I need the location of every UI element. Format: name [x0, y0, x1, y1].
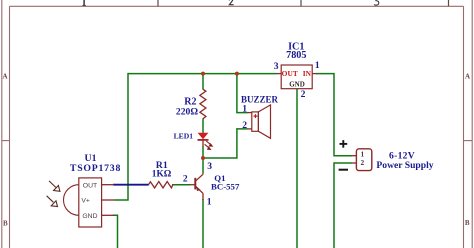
wire connector pin 2 to bottom	[334, 163, 352, 248]
svg-text:220Ω: 220Ω	[176, 107, 198, 118]
svg-text:TSOP1738: TSOP1738	[70, 163, 121, 174]
LED LED1	[198, 133, 214, 150]
wire R1 to Q1 base	[172, 184, 190, 186]
svg-text:B: B	[3, 220, 8, 228]
wire R2 to LED1	[202, 119, 204, 133]
svg-text:A: A	[2, 73, 7, 81]
junction node rail-R2	[201, 72, 205, 76]
IC1 pin 3 number	[274, 61, 279, 72]
svg-text:BC-557: BC-557	[211, 181, 240, 191]
wire node to buzzer pin 2	[203, 129, 248, 158]
IR light arrows	[47, 181, 60, 207]
svg-text:OUT: OUT	[83, 182, 97, 189]
resistor R2	[200, 89, 206, 118]
label R1 value	[152, 160, 172, 180]
op-amp IC1 7805 regulator	[277, 65, 317, 89]
power supply connector X1	[352, 149, 372, 171]
svg-text:A: A	[465, 73, 470, 81]
transistor Q1 BC-557	[190, 173, 203, 200]
resistor R1	[149, 182, 173, 188]
wire IC1 GND to bottom	[296, 89, 298, 248]
svg-text:1: 1	[315, 60, 320, 71]
label IC1 7805	[286, 42, 306, 61]
svg-text:2: 2	[360, 158, 364, 167]
svg-text:2: 2	[301, 89, 306, 100]
minus symbol	[339, 169, 348, 171]
svg-text:IN: IN	[303, 69, 312, 78]
wire V+ top rail	[128, 73, 277, 75]
svg-text:GND: GND	[82, 213, 97, 220]
wire IC1 IN to connector pin 1	[316, 74, 352, 156]
svg-text:Power Supply: Power Supply	[376, 160, 433, 171]
buzzer pin 1 number	[242, 104, 247, 115]
wire rail to buzzer pin 1	[237, 74, 248, 113]
svg-text:OUT: OUT	[282, 69, 298, 78]
Q1 base pin 2 number	[183, 174, 188, 185]
IR receiver U1 TSOP1738	[64, 178, 115, 227]
label 6-12V Power Supply	[376, 151, 433, 171]
svg-text:3: 3	[274, 61, 279, 72]
buzzer	[248, 105, 271, 138]
svg-text:3: 3	[207, 161, 212, 172]
IC1 pin 1 number	[315, 60, 320, 71]
svg-text:1: 1	[242, 104, 247, 115]
wire U1 GND to bottom	[113, 215, 118, 248]
wire left V+ drop to U1	[114, 73, 128, 200]
Q1 collector pin 3 number	[207, 161, 212, 172]
svg-text:V+: V+	[81, 198, 90, 205]
label Q1 BC-557	[211, 173, 240, 191]
junction node rail-buzzer	[235, 72, 239, 76]
label R2 value	[176, 97, 198, 118]
IC1 pin 2 number	[301, 89, 306, 100]
svg-text:1KΩ: 1KΩ	[152, 170, 172, 180]
svg-text:2: 2	[242, 120, 247, 131]
svg-text:7805: 7805	[286, 50, 306, 61]
wire OUT net (blue) from U1 to R1	[113, 184, 149, 186]
wire node to Q1 collector	[202, 158, 204, 173]
buzzer pin 2 number	[242, 120, 247, 131]
svg-text:1: 1	[207, 196, 212, 207]
wire Q1 emitter to bottom	[202, 199, 204, 248]
svg-text:B: B	[465, 219, 470, 227]
wire R2 top stub	[202, 74, 204, 90]
wire LED1 cathode to node	[202, 146, 204, 158]
junction node LED-buzzer-collector	[201, 156, 205, 160]
Q1 emitter pin 1 number	[207, 196, 212, 207]
svg-text:GND: GND	[289, 81, 305, 89]
label BUZZER	[241, 94, 279, 104]
label LED1	[174, 131, 194, 140]
label U1 TSOP1738	[70, 153, 121, 174]
plus symbol	[340, 140, 348, 148]
svg-text:2: 2	[183, 174, 188, 185]
svg-text:LED1: LED1	[174, 131, 194, 140]
